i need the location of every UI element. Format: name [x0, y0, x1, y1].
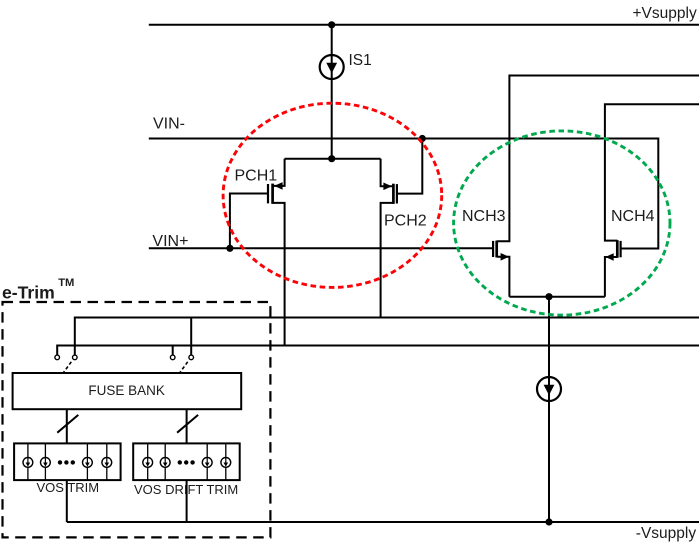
NCH3 channel bar	[495, 241, 498, 258]
NCH4 source arrow (NMOS, points out to source)	[605, 253, 613, 261]
wire NMOS common source line	[509, 296, 605, 298]
svg-text:VOS TRIM: VOS TRIM	[37, 480, 100, 495]
bus slash 1	[57, 415, 78, 433]
wire -Vsupply rail	[67, 521, 699, 523]
svg-text:NCH4: NCH4	[611, 208, 655, 225]
wire VIN- rail (to NCH4 gate via right corner)	[149, 139, 659, 249]
wire fuse link 2 (FUSE BANK to VOS DRIFT TRIM)	[186, 409, 188, 443]
transistor NCH4	[605, 104, 699, 297]
wire VIN+ rail (to NCH3 gate)	[149, 247, 494, 249]
wire VOS DRIFT TRIM to -Vsupply rail	[186, 480, 188, 522]
PCH1 source arrow (PMOS, points into channel)	[274, 182, 282, 190]
NCH3 gate bar	[492, 241, 494, 257]
switch arm dashed link 1	[63, 362, 71, 373]
current source IS1	[320, 55, 344, 79]
wire trim bus 1 stub to switch contact	[190, 318, 192, 355]
wire PCH1 source lead	[273, 159, 285, 186]
svg-text:VIN-: VIN-	[153, 116, 185, 133]
wire NCH4 source lead	[605, 257, 618, 297]
wire fuse link 1 (FUSE BANK to VOS TRIM)	[66, 409, 68, 443]
node junction -Vsupply rail / tail	[545, 518, 552, 525]
PCH1 gate bar	[267, 184, 269, 203]
ellipsis dots	[58, 460, 62, 464]
svg-text:+Vsupply: +Vsupply	[633, 5, 697, 22]
transistor PCH2	[381, 135, 426, 318]
svg-text:PCH2: PCH2	[384, 213, 427, 230]
wire trim bus 1 (upper, from PCH2 drain to e-Trim and right edge)	[75, 318, 699, 355]
node junction top rail / IS1	[328, 21, 335, 28]
wire NCH4 drain lead to upper-right rail	[605, 104, 699, 240]
svg-text:PCH1: PCH1	[235, 168, 278, 185]
switch contact S1b	[73, 355, 78, 360]
block VOS DRIFT TRIM	[133, 443, 240, 480]
svg-text:IS1: IS1	[349, 52, 372, 69]
NCH3 source arrow (NMOS, points out to source)	[501, 253, 509, 261]
svg-text:FUSE BANK: FUSE BANK	[88, 383, 165, 398]
svg-text:VIN+: VIN+	[152, 233, 188, 250]
ellipsis dots	[178, 460, 182, 464]
wire trim bus 2 stub to switch contact	[172, 346, 174, 355]
wire PCH2 drain lead down to trim bus 1	[381, 203, 394, 318]
wire PCH2 gate lead to VIN-	[397, 139, 423, 194]
switch contact S1a	[55, 355, 60, 360]
NCH4 channel bar	[616, 240, 619, 258]
svg-text:TM: TM	[58, 277, 74, 289]
svg-text:NCH3: NCH3	[462, 208, 506, 225]
wire PMOS common source line	[285, 158, 381, 160]
PCH2 gate bar	[396, 184, 398, 203]
trim current source cells	[143, 458, 153, 468]
transistor PCH1	[226, 159, 284, 346]
node junction VIN+ / PCH1 gate	[226, 245, 233, 252]
trim current source cells	[23, 458, 33, 468]
wire NCH3 drain lead to upper-right rail	[497, 76, 699, 242]
block FUSE BANK	[13, 373, 242, 409]
node junction NMOS tail	[545, 293, 552, 300]
block VOS TRIM	[14, 443, 121, 480]
wire NMOS tail down to -Vsupply rail	[548, 297, 550, 522]
wire VOS TRIM to -Vsupply rail	[66, 480, 68, 522]
wire trim bus 2 (lower, from PCH1 drain to e-Trim and right edge)	[57, 346, 699, 355]
switch contact S2a	[170, 355, 175, 360]
highlight green dashed ellipse (NMOS pair)	[454, 131, 670, 315]
wire PCH2 source lead	[381, 159, 394, 187]
NCH4 gate bar	[619, 241, 621, 257]
node junction VIN- / PCH2 gate	[419, 135, 426, 142]
wire PCH1 drain lead down to trim bus 2	[273, 203, 285, 346]
wire PCH1 gate lead to VIN+	[230, 194, 268, 249]
current sink (NMOS tail current source)	[537, 377, 561, 401]
highlight red dashed ellipse (PMOS pair)	[223, 103, 442, 287]
wire NCH3 source lead	[497, 257, 510, 297]
svg-text:e-Trim: e-Trim	[2, 282, 55, 302]
svg-text:-Vsupply: -Vsupply	[636, 525, 697, 542]
PCH2 source arrow (PMOS, points into channel)	[383, 183, 391, 191]
bus slash 2	[177, 415, 198, 433]
switch contact S2b	[189, 355, 194, 360]
switch arm dashed link 2	[180, 362, 188, 373]
e-Trim block dashed boundary	[3, 302, 271, 537]
PCH2 channel bar	[392, 184, 395, 204]
PCH1 channel bar	[271, 184, 274, 204]
wire +Vsupply rail	[149, 24, 699, 26]
wire IS1 tail vertical (top rail to PMOS common source)	[331, 25, 333, 159]
node junction PMOS tail	[328, 155, 335, 162]
transistor NCH3	[493, 76, 699, 297]
